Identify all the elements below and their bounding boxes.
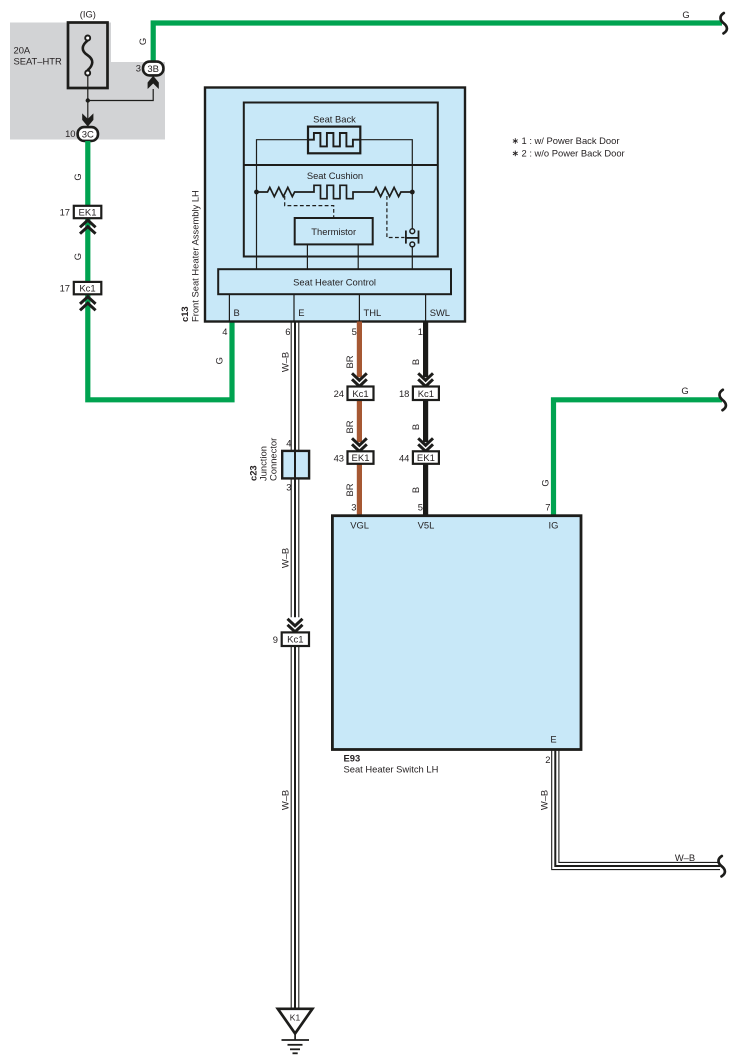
terminal leg SWL (425, 294, 427, 321)
double chevron down (352, 438, 367, 451)
wire G IG feed (554, 400, 723, 516)
svg-text:G: G (682, 9, 689, 20)
svg-text:E: E (298, 307, 304, 318)
connector Kc1 9 (282, 632, 309, 646)
svg-text:18: 18 (399, 388, 409, 399)
terminal leg E (293, 294, 295, 321)
arrow down into 3C (82, 113, 93, 126)
svg-text:10: 10 (65, 128, 75, 139)
ignition relay block gray background (10, 23, 165, 140)
svg-text:EK1: EK1 (79, 207, 97, 218)
svg-text:6: 6 (285, 326, 290, 337)
svg-text:17: 17 (60, 283, 70, 294)
svg-text:9: 9 (273, 634, 278, 645)
switch E93 box (332, 516, 581, 750)
svg-text:c13: c13 (179, 306, 190, 322)
dashed link right resistor to switch (387, 196, 405, 238)
svg-text:Seat Heater Control: Seat Heater Control (293, 276, 376, 287)
svg-text:BR: BR (344, 483, 355, 496)
svg-text:B: B (234, 307, 240, 318)
divider (244, 164, 438, 166)
svg-text:4: 4 (222, 326, 227, 337)
svg-text:VGL: VGL (350, 519, 369, 530)
terminal leg THL (358, 294, 360, 321)
svg-text:24: 24 (334, 388, 344, 399)
wire element right leg (360, 140, 412, 192)
break symbol right middle (719, 390, 725, 410)
wire G battery feed top (153, 23, 722, 62)
svg-text:E93: E93 (344, 753, 361, 764)
inner unit box (244, 103, 438, 257)
svg-text:1 : w/ Power Back Door: 1 : w/ Power Back Door (522, 135, 620, 146)
seat back heater element (308, 127, 360, 154)
dashed link left resistor to thermistor (285, 196, 334, 218)
wire G fuse to terminal B (88, 141, 232, 400)
wire element left leg (257, 140, 309, 270)
svg-text:Kc1: Kc1 (79, 283, 95, 294)
svg-text:G: G (681, 385, 688, 396)
svg-text:G: G (214, 357, 225, 364)
svg-text:3: 3 (351, 502, 356, 513)
svg-text:Seat Cushion: Seat Cushion (307, 170, 363, 181)
junction dot (86, 98, 90, 102)
terminal leg B (228, 294, 230, 321)
svg-text:20A: 20A (14, 45, 31, 56)
svg-text:2 : w/o Power Back Door: 2 : w/o Power Back Door (522, 148, 625, 159)
wire W-B from pin 6 to ground (291, 322, 299, 1010)
wire BR from THL (357, 322, 362, 517)
temperature switch (406, 192, 419, 269)
break symbol top right (720, 13, 726, 33)
svg-text:W–B: W–B (280, 548, 291, 568)
connector EK1 44 (413, 451, 439, 464)
svg-text:3B: 3B (147, 64, 159, 75)
connector EK1 17 (74, 206, 102, 218)
note 1 star (513, 138, 518, 144)
svg-text:Kc1: Kc1 (418, 389, 434, 400)
wire fuse to junction (87, 76, 89, 120)
cushion wire with resistors and element (257, 185, 413, 198)
svg-text:G: G (72, 173, 83, 180)
svg-text:W–B: W–B (280, 352, 291, 372)
svg-text:G: G (72, 253, 83, 260)
connector Kc1 24 (348, 387, 374, 401)
double chevron down (418, 373, 433, 386)
svg-text:Seat Heater Switch LH: Seat Heater Switch LH (344, 764, 439, 775)
double chevron down (352, 373, 367, 386)
wire B from SWL (423, 322, 428, 517)
svg-text:THL: THL (364, 307, 382, 318)
svg-text:W–B: W–B (539, 790, 550, 810)
ground K1 (278, 1009, 313, 1054)
svg-text:7: 7 (545, 502, 550, 513)
svg-text:5: 5 (352, 326, 357, 337)
double chevron down on W-B (288, 619, 303, 632)
junction connector c23 (282, 451, 309, 479)
svg-text:SEAT–HTR: SEAT–HTR (14, 56, 62, 67)
connector EK1 43 (348, 451, 374, 464)
svg-text:W–B: W–B (675, 852, 695, 863)
svg-text:4: 4 (286, 438, 291, 449)
svg-text:44: 44 (399, 452, 409, 463)
svg-text:B: B (410, 359, 421, 365)
svg-text:B: B (410, 487, 421, 493)
thermistor (295, 218, 373, 244)
svg-text:3: 3 (286, 482, 291, 493)
svg-text:IG: IG (549, 519, 559, 530)
double chevron up (80, 297, 96, 311)
wire thermistor right leg (357, 244, 359, 269)
svg-text:(IG): (IG) (80, 9, 96, 20)
connector 3C (78, 127, 98, 141)
svg-text:SWL: SWL (430, 307, 450, 318)
double chevron down (418, 438, 433, 451)
svg-text:V5L: V5L (418, 519, 435, 530)
connector Kc1 17 (74, 282, 102, 294)
fuse 20A SEAT-HTR (68, 23, 108, 89)
svg-text:B: B (410, 424, 421, 430)
svg-text:E: E (550, 734, 556, 745)
svg-text:EK1: EK1 (352, 453, 370, 464)
arrow up into 3B (148, 76, 159, 89)
svg-text:Front Seat Heater Assembly LH: Front Seat Heater Assembly LH (190, 190, 201, 322)
svg-text:Thermistor: Thermistor (311, 226, 356, 237)
svg-text:Kc1: Kc1 (287, 635, 303, 646)
svg-text:17: 17 (60, 207, 70, 218)
svg-text:Connector: Connector (268, 438, 279, 481)
svg-text:BR: BR (344, 355, 355, 368)
connector Kc1 18 (413, 387, 439, 401)
svg-text:G: G (540, 479, 551, 486)
assembly c13 box (205, 88, 465, 322)
node left junction (254, 190, 259, 195)
svg-text:5: 5 (418, 502, 423, 513)
svg-text:3C: 3C (82, 129, 94, 140)
svg-text:K1: K1 (290, 1013, 301, 1023)
break symbol bottom right (718, 856, 724, 876)
svg-text:43: 43 (334, 452, 344, 463)
svg-text:Seat Back: Seat Back (313, 113, 356, 124)
svg-text:G: G (137, 38, 148, 45)
note 2 star (513, 151, 518, 157)
svg-text:1: 1 (418, 326, 423, 337)
wire thermistor left leg (306, 244, 308, 269)
svg-text:3: 3 (136, 63, 141, 74)
connector 3B (143, 62, 163, 76)
svg-text:Kc1: Kc1 (352, 389, 368, 400)
double chevron up (80, 220, 96, 234)
seat heater control (218, 269, 451, 294)
wire W-B from E pin to right break (552, 749, 720, 869)
svg-text:2: 2 (545, 754, 550, 765)
svg-text:EK1: EK1 (417, 453, 435, 464)
svg-text:W–B: W–B (280, 790, 291, 810)
wire junction to 3B (88, 89, 153, 101)
node right junction (410, 190, 415, 195)
svg-text:BR: BR (344, 420, 355, 433)
